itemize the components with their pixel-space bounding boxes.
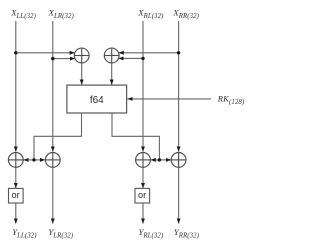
svg-text:RK(128): RK(128) — [217, 93, 245, 106]
wire XOR2 output to f64 — [111, 63, 113, 85]
wire f64 right output — [112, 113, 159, 160]
xor gate X4 bottom mid-left — [45, 153, 60, 168]
svg-text:YLL(32): YLL(32) — [12, 227, 37, 240]
wire XLR branch to XOR1 — [53, 58, 75, 60]
wire node B to XOR5 — [151, 159, 160, 161]
wire or1 output YLL — [15, 203, 17, 224]
wire XLR vertical — [52, 21, 54, 152]
wire XRR branch to XOR2 — [119, 52, 179, 54]
wire XLL branch to XOR1 — [16, 52, 75, 54]
svg-text:YLR(32): YLR(32) — [48, 227, 73, 240]
wire XOR3 to or1 — [15, 167, 17, 188]
node XRR branch junction — [177, 51, 180, 54]
xor gate X2 top-right — [104, 48, 119, 63]
wire XRR vertical — [178, 21, 180, 152]
wire or2 output YRL — [142, 203, 144, 224]
svg-text:XLR(32): XLR(32) — [48, 7, 75, 20]
wire node A to XOR4 — [34, 159, 45, 161]
wire node B to XOR6 — [159, 159, 171, 161]
xor gate X5 bottom mid-right — [136, 153, 151, 168]
node XRL branch junction — [141, 57, 144, 60]
node XLR branch junction — [51, 57, 54, 60]
svg-text:or: or — [12, 190, 20, 200]
xor gate X6 bottom far-right — [171, 153, 186, 168]
wire XRL branch to XOR2 — [118, 57, 143, 59]
wire XOR6 output YRR — [178, 167, 180, 223]
wire XOR1 output to f64 — [81, 63, 83, 85]
xor gate X3 bottom far-left — [8, 153, 23, 168]
block or2 orthomorphism right — [135, 188, 150, 203]
svg-text:XRL(32): XRL(32) — [137, 7, 164, 20]
svg-text:XLL(32): XLL(32) — [10, 7, 36, 20]
svg-text:YRR(32): YRR(32) — [174, 227, 200, 240]
wire f64 left output — [34, 113, 82, 160]
wire XLL vertical — [15, 21, 17, 152]
wire RK input — [127, 98, 211, 100]
svg-text:XRR(32): XRR(32) — [172, 7, 199, 20]
wire XOR4 output YLR — [52, 167, 54, 223]
wire XRL vertical — [142, 21, 144, 152]
block or1 orthomorphism left — [9, 188, 24, 203]
svg-text:YRL(32): YRL(32) — [139, 227, 164, 240]
svg-text:f64: f64 — [90, 95, 104, 106]
wire XOR5 to or2 — [142, 167, 144, 188]
svg-text:or: or — [138, 190, 146, 200]
xor gate X1 top-left — [74, 48, 89, 63]
block f64 — [67, 85, 127, 113]
wire node A to XOR3 — [23, 159, 34, 161]
node A junction left — [32, 158, 35, 161]
node B junction right — [158, 158, 161, 161]
node XLL branch junction — [14, 51, 17, 54]
